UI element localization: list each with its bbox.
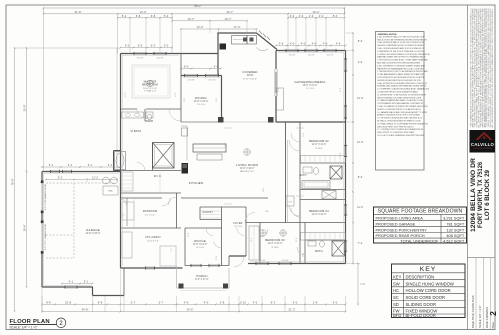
svg-text:2. ALL INTERIOR WALLS TO BE 2X: 2. ALL INTERIOR WALLS TO BE 2X4 STUDS AT… bbox=[377, 41, 424, 44]
svg-text:3050 SH: 3050 SH bbox=[157, 58, 164, 60]
svg-text:BEDROOM: BEDROOM bbox=[142, 83, 158, 87]
svg-text:12’-9: 12’-9 bbox=[357, 96, 363, 100]
svg-text:12’-2: 12’-2 bbox=[92, 176, 98, 180]
svg-text:12’-9: 12’-9 bbox=[357, 140, 363, 144]
svg-text:18’-4": 18’-4" bbox=[313, 10, 320, 14]
svg-text:12’-0" X 12’-0": 12’-0" X 12’-0" bbox=[268, 243, 283, 245]
svg-text:4’-0: 4’-0 bbox=[301, 42, 306, 46]
svg-text:13. ALL PLUMBING FIXTURES PER: 13. ALL PLUMBING FIXTURES PER OWNER SELE… bbox=[377, 105, 428, 108]
svg-text:12’-0: 12’-0 bbox=[251, 238, 253, 242]
svg-text:5’-7: 5’-7 bbox=[159, 300, 164, 304]
svg-text:PROPOSED REAR PORCH: PROPOSED REAR PORCH bbox=[376, 233, 425, 238]
svg-text:SD: SD bbox=[393, 302, 399, 307]
svg-text:BEDROOM #4: BEDROOM #4 bbox=[309, 209, 329, 213]
svg-text:FIELD PRIOR TO CONSTRUCTION ST: FIELD PRIOR TO CONSTRUCTION START bbox=[377, 131, 415, 134]
svg-text:8’-0" X 8’-0" GARAGE DOOR: 8’-0" X 8’-0" GARAGE DOOR bbox=[44, 183, 47, 210]
svg-text:10’ CLG: 10’ CLG bbox=[196, 247, 204, 249]
svg-text:11. DRYER VENT TO BE ROUTED TO: 11. DRYER VENT TO BE ROUTED TO EXTERIOR … bbox=[377, 94, 426, 96]
svg-text:4’-0: 4’-0 bbox=[290, 42, 295, 46]
svg-text:AT WALLS OR AS REQUIRED BY ENE: AT WALLS OR AS REQUIRED BY ENERGY CODE bbox=[377, 120, 421, 123]
svg-text:9’-0: 9’-0 bbox=[171, 248, 173, 251]
svg-text:MUDROOM: MUDROOM bbox=[143, 210, 157, 213]
svg-text:SLIDING DOOR: SLIDING DOOR bbox=[406, 302, 436, 307]
svg-text:31’-8": 31’-8" bbox=[75, 10, 82, 14]
svg-text:LIVING ROOM: LIVING ROOM bbox=[236, 163, 259, 167]
svg-text:2’-8: 2’-8 bbox=[220, 300, 225, 304]
svg-text:10. TEMPERED GLAZING REQUIRED: 10. TEMPERED GLAZING REQUIRED AT ALL HAZ… bbox=[377, 88, 429, 91]
svg-text:KEY: KEY bbox=[420, 266, 437, 273]
svg-text:9’-0: 9’-0 bbox=[123, 213, 125, 216]
svg-text:33’-0: 33’-0 bbox=[45, 198, 47, 202]
svg-text:AND WALL MOUNTED FIXTURES AS R: AND WALL MOUNTED FIXTURES AS REQUIRED bbox=[377, 62, 421, 65]
svg-text:PROPOSED GARAGE: PROPOSED GARAGE bbox=[376, 222, 416, 227]
svg-text:SC: SC bbox=[393, 295, 399, 300]
svg-text:14’-4": 14’-4" bbox=[140, 10, 147, 14]
svg-text:11’ CLG: 11’ CLG bbox=[306, 88, 314, 90]
svg-text:19’-4": 19’-4" bbox=[23, 224, 27, 231]
svg-text:WATERPROOF MEMBRANE PER LOCAL: WATERPROOF MEMBRANE PER LOCAL CODE REQ bbox=[377, 67, 424, 70]
svg-text:KITCHEN: KITCHEN bbox=[189, 181, 204, 185]
svg-text:17’-4": 17’-4" bbox=[234, 25, 241, 29]
svg-text:DATE: 11/05/2021: DATE: 11/05/2021 bbox=[485, 306, 489, 328]
svg-text:CALVILLO: CALVILLO bbox=[471, 142, 495, 147]
svg-text:5’-2: 5’-2 bbox=[122, 14, 127, 18]
svg-text:8’-0" X 17’-6": 8’-0" X 17’-6" bbox=[195, 279, 209, 281]
svg-text:6’-2: 6’-2 bbox=[58, 176, 63, 180]
svg-text:12094 BELLA VINO DR: 12094 BELLA VINO DR bbox=[470, 157, 477, 232]
svg-text:4’-6: 4’-6 bbox=[336, 42, 341, 46]
svg-text:SQUARE FOOTAGE BREAKDOWN: SQUARE FOOTAGE BREAKDOWN bbox=[378, 208, 463, 214]
svg-text:4. VERIFY ALL WINDOW AND DOOR: 4. VERIFY ALL WINDOW AND DOOR ROUGH OPEN… bbox=[377, 53, 430, 56]
svg-text:OTHERWISE ON THE FLOOR PLAN SE: OTHERWISE ON THE FLOOR PLAN SEE CLG NOTE… bbox=[377, 50, 425, 53]
svg-text:408 SQFT: 408 SQFT bbox=[446, 233, 465, 238]
svg-text:17’-0: 17’-0 bbox=[175, 93, 177, 97]
svg-text:UTIL/CRAFT: UTIL/CRAFT bbox=[145, 236, 161, 239]
svg-text:6’-0" X 9’-0": 6’-0" X 9’-0" bbox=[145, 215, 156, 217]
svg-text:24’-6": 24’-6" bbox=[187, 308, 194, 312]
svg-text:5’-2: 5’-2 bbox=[164, 14, 169, 18]
svg-text:10’-0" X 9’-0": 10’-0" X 9’-0" bbox=[147, 241, 159, 243]
svg-text:22’-8: 22’-8 bbox=[87, 178, 89, 182]
svg-text:12’-6" X 12’-0": 12’-6" X 12’-0" bbox=[312, 144, 327, 146]
svg-text:2’-10: 2’-10 bbox=[240, 300, 246, 304]
svg-text:SCALE: 1/4" = 1’-0": SCALE: 1/4" = 1’-0" bbox=[10, 325, 38, 329]
svg-text:4’-9: 4’-9 bbox=[309, 14, 314, 18]
svg-text:HC: HC bbox=[393, 288, 399, 293]
svg-text:9. ALL EXTERIOR DOORS AND WIND: 9. ALL EXTERIOR DOORS AND WINDOWS TO BE … bbox=[377, 82, 428, 85]
svg-text:W.I.C.: W.I.C. bbox=[154, 174, 162, 178]
svg-text:5’-1: 5’-1 bbox=[49, 163, 54, 167]
svg-text:5’-1: 5’-1 bbox=[88, 163, 93, 167]
svg-text:18’-0: 18’-0 bbox=[225, 143, 227, 147]
svg-text:3’-6: 3’-6 bbox=[279, 42, 284, 46]
svg-text:781 SQFT: 781 SQFT bbox=[446, 222, 465, 227]
svg-text:LOT 6 BLOCK 29: LOT 6 BLOCK 29 bbox=[484, 169, 491, 220]
svg-text:9’ TRAY CLG: 9’ TRAY CLG bbox=[144, 90, 156, 93]
svg-text:34’-8": 34’-8" bbox=[82, 308, 89, 312]
svg-text:11’-0: 11’-0 bbox=[357, 205, 363, 209]
svg-text:6’-0: 6’-0 bbox=[184, 65, 189, 69]
svg-text:12. WATER HEATER AND HVAC LOCA: 12. WATER HEATER AND HVAC LOCATIONS TO B… bbox=[377, 99, 423, 102]
svg-text:5. PROVIDE BLOCKING AT ALL TOW: 5. PROVIDE BLOCKING AT ALL TOWEL BARS GR… bbox=[377, 59, 428, 62]
svg-text:13’-6: 13’-6 bbox=[216, 98, 218, 102]
svg-text:21’-6: 21’-6 bbox=[340, 88, 342, 92]
svg-text:3,291 SQFT: 3,291 SQFT bbox=[443, 216, 465, 221]
svg-text:17. CONTRACTOR TO VERIFY ALL D: 17. CONTRACTOR TO VERIFY ALL DIMENSIONS … bbox=[377, 128, 423, 131]
svg-text:PROPOSED LIVING AREA: PROPOSED LIVING AREA bbox=[376, 216, 424, 221]
svg-text:6040 SW: 6040 SW bbox=[209, 80, 216, 82]
svg-text:VERIFY LOCATIONS PRIOR TO SLAB: VERIFY LOCATIONS PRIOR TO SLAB ROUGH IN bbox=[377, 108, 421, 111]
svg-text:3’-0: 3’-0 bbox=[164, 44, 169, 48]
svg-text:3. ALL CEILING HEIGHTS ARE 10: 3. ALL CEILING HEIGHTS ARE 10 FT-0 IN UN… bbox=[377, 47, 424, 50]
svg-text:8’-0" X 8’-0" GARAGE DOOR: 8’-0" X 8’-0" GARAGE DOOR bbox=[44, 223, 47, 250]
svg-text:21’-6: 21’-6 bbox=[278, 88, 280, 92]
svg-text:M.BATH: M.BATH bbox=[131, 129, 142, 133]
svg-text:AREAS TO RECEIVE 5/8 IN TYPE X: AREAS TO RECEIVE 5/8 IN TYPE X GYP BOARD bbox=[377, 114, 420, 117]
svg-text:7’-2: 7’-2 bbox=[358, 241, 363, 245]
svg-text:PAGE TITLE: FLOOR PLAN: PAGE TITLE: FLOOR PLAN bbox=[471, 295, 475, 328]
svg-text:76’-9": 76’-9" bbox=[11, 178, 15, 185]
svg-text:8’-0: 8’-0 bbox=[333, 14, 338, 18]
svg-text:4’-9: 4’-9 bbox=[358, 60, 363, 64]
svg-text:12’-0" X 12’-0": 12’-0" X 12’-0" bbox=[312, 214, 327, 216]
svg-text:2: 2 bbox=[488, 311, 498, 316]
svg-text:7. SMOKE DETECTORS TO BE INSTA: 7. SMOKE DETECTORS TO BE INSTALLED PER I… bbox=[377, 70, 428, 73]
svg-text:SINGLE HUNG WINDOW: SINGLE HUNG WINDOW bbox=[406, 281, 454, 286]
svg-text:4’-0: 4’-0 bbox=[323, 42, 328, 46]
svg-text:18’-0: 18’-0 bbox=[263, 188, 265, 192]
svg-text:LOCATIONS PER IRC R308.4 AS AP: LOCATIONS PER IRC R308.4 AS APPLICABLE bbox=[377, 91, 418, 94]
svg-text:6’-0: 6’-0 bbox=[293, 300, 298, 304]
svg-text:1. ALL EXTERIOR WALLS TO BE 2X: 1. ALL EXTERIOR WALLS TO BE 2X4 STUDS AT… bbox=[377, 35, 425, 38]
svg-text:12’-6: 12’-6 bbox=[216, 256, 218, 260]
svg-text:4’-0: 4’-0 bbox=[319, 14, 324, 18]
svg-text:6’-8: 6’-8 bbox=[151, 14, 156, 18]
svg-text:FLOOR PLAN: FLOOR PLAN bbox=[10, 319, 50, 325]
svg-text:PANTRY: PANTRY bbox=[203, 211, 214, 214]
svg-text:10’ CLG: 10’ CLG bbox=[197, 104, 205, 106]
svg-text:12’-0: 12’-0 bbox=[340, 153, 342, 157]
svg-text:6. ALL SHOWERS TO RECEIVE CEME: 6. ALL SHOWERS TO RECEIVE CEMENT BOARD A… bbox=[377, 64, 425, 67]
svg-text:6’-8: 6’-8 bbox=[136, 14, 141, 18]
svg-text:8. PROVIDE ATTIC ACCESS MIN 22: 8. PROVIDE ATTIC ACCESS MIN 22X30 IN LOC… bbox=[377, 76, 425, 79]
svg-text:14. GARAGE WALLS AND CEILING A: 14. GARAGE WALLS AND CEILING ADJACENT TO… bbox=[377, 111, 427, 114]
svg-text:21’-2": 21’-2" bbox=[289, 308, 296, 312]
svg-text:MIN 6 IN IN FIRST 10 FT PER IR: MIN 6 IN IN FIRST 10 FT PER IRC R401.3 bbox=[377, 126, 413, 128]
svg-text:4,612 SQFT: 4,612 SQFT bbox=[443, 238, 465, 243]
svg-text:BATH: BATH bbox=[315, 249, 323, 253]
svg-text:6’-0: 6’-0 bbox=[333, 300, 338, 304]
svg-text:12’-2": 12’-2" bbox=[197, 25, 204, 29]
svg-text:LOCAL AMENDMENTS HARD WIRED WI: LOCAL AMENDMENTS HARD WIRED WITH BATTERY bbox=[377, 73, 425, 76]
svg-text:26’-7": 26’-7" bbox=[227, 10, 234, 14]
svg-text:12’-0: 12’-0 bbox=[303, 133, 305, 137]
svg-text:HVAC: HVAC bbox=[108, 190, 114, 193]
svg-text:10’-7": 10’-7" bbox=[225, 17, 232, 21]
svg-text:BATH: BATH bbox=[300, 174, 307, 177]
svg-text:2’-8: 2’-8 bbox=[313, 300, 318, 304]
svg-text:OFFICE: OFFICE bbox=[194, 239, 206, 243]
svg-text:3060 SH: 3060 SH bbox=[327, 55, 334, 57]
svg-text:PATIO: PATIO bbox=[247, 74, 254, 77]
svg-text:17’-0" X 12’-0": 17’-0" X 12’-0" bbox=[243, 79, 257, 81]
svg-text:17’-0: 17’-0 bbox=[125, 93, 127, 97]
svg-text:COVERED: COVERED bbox=[242, 70, 257, 74]
svg-text:5’-1: 5’-1 bbox=[68, 163, 73, 167]
svg-text:ALL WINDOW AND DOOR SIZES TO B: ALL WINDOW AND DOOR SIZES TO BE VERIFIED… bbox=[491, 8, 494, 127]
svg-text:4’-0: 4’-0 bbox=[253, 300, 258, 304]
svg-text:SMOOTH METAL DUCT MAX LENGTH P: SMOOTH METAL DUCT MAX LENGTH PER CODE bbox=[377, 96, 422, 99]
svg-text:PORCH: PORCH bbox=[196, 274, 207, 278]
svg-text:10’-7": 10’-7" bbox=[188, 17, 195, 21]
svg-text:33’-9": 33’-9" bbox=[23, 104, 27, 111]
svg-text:SOLID CORE DOOR: SOLID CORE DOOR bbox=[406, 295, 446, 300]
svg-text:GATHERING/MEDIA: GATHERING/MEDIA bbox=[295, 80, 326, 84]
svg-text:5’-1: 5’-1 bbox=[108, 163, 113, 167]
svg-text:15. PROVIDE R-38 INSULATION AT: 15. PROVIDE R-38 INSULATION AT CEILINGS … bbox=[377, 117, 422, 120]
svg-text:6’-0: 6’-0 bbox=[138, 44, 143, 48]
svg-text:KEY: KEY bbox=[393, 274, 402, 279]
svg-text:TOTAL UNDERROOF: TOTAL UNDERROOF bbox=[400, 238, 439, 243]
svg-text:7’-2: 7’-2 bbox=[360, 282, 365, 286]
svg-text:BI-FOLD DOOR: BI-FOLD DOOR bbox=[406, 313, 436, 318]
svg-text:VAULTED CLG: VAULTED CLG bbox=[240, 170, 255, 173]
svg-text:12’-0: 12’-0 bbox=[296, 238, 298, 242]
svg-text:DESCRIPTION: DESCRIPTION bbox=[406, 274, 435, 279]
svg-text:FORT WORTH, TX 75126: FORT WORTH, TX 75126 bbox=[477, 161, 484, 228]
svg-text:6’-0: 6’-0 bbox=[214, 65, 219, 69]
svg-text:FOYER: FOYER bbox=[233, 222, 242, 225]
svg-text:88’-2": 88’-2" bbox=[195, 4, 202, 8]
svg-text:5’-7: 5’-7 bbox=[131, 300, 136, 304]
svg-text:CUSTOM HOMES: CUSTOM HOMES bbox=[473, 148, 492, 150]
svg-text:GARAGE: GARAGE bbox=[86, 228, 100, 232]
svg-text:8’-8: 8’-8 bbox=[46, 300, 51, 304]
svg-text:BEDROOM #3: BEDROOM #3 bbox=[265, 238, 285, 242]
svg-text:9’ CLG: 9’ CLG bbox=[272, 247, 279, 249]
svg-text:6040 SW: 6040 SW bbox=[188, 80, 195, 82]
svg-text:8’-2: 8’-2 bbox=[271, 300, 276, 304]
svg-text:4’-1: 4’-1 bbox=[69, 280, 74, 284]
svg-text:4’-9: 4’-9 bbox=[299, 14, 304, 18]
svg-text:3050 SH: 3050 SH bbox=[137, 58, 144, 60]
svg-text:COORDINATED WITH MECHANICAL CO: COORDINATED WITH MECHANICAL CONTRACTOR bbox=[377, 102, 423, 105]
svg-text:15’-8: 15’-8 bbox=[65, 300, 71, 304]
svg-text:DINING: DINING bbox=[195, 96, 207, 100]
svg-text:3’-0: 3’-0 bbox=[125, 44, 130, 48]
svg-text:3060 SH: 3060 SH bbox=[289, 55, 296, 57]
svg-text:PROPOSED PORCH/ENTRY: PROPOSED PORCH/ENTRY bbox=[376, 227, 428, 232]
svg-text:UNLESS OTHERWISE NOTED ON PLAN: UNLESS OTHERWISE NOTED ON PLAN OR DETAIL… bbox=[377, 44, 425, 47]
svg-text:8’-8: 8’-8 bbox=[98, 300, 103, 304]
svg-text:FLASHED AND SEALED PER MANUFAC: FLASHED AND SEALED PER MANUFACTURER SPEC… bbox=[377, 85, 426, 88]
svg-text:MANUFACTURER SPECS PRIOR TO FR: MANUFACTURER SPECS PRIOR TO FRAMING WALL… bbox=[377, 56, 426, 59]
svg-text:5’-1: 5’-1 bbox=[84, 280, 89, 284]
svg-text:SW: SW bbox=[393, 281, 400, 286]
svg-text:12’-6: 12’-6 bbox=[188, 233, 190, 237]
svg-text:SCALE: 1/4" = 1’-0": SCALE: 1/4" = 1’-0" bbox=[478, 305, 482, 328]
svg-text:SHOWN OR AS DIRECTED BY BUILDE: SHOWN OR AS DIRECTED BY BUILDER ON SITE bbox=[377, 79, 421, 82]
svg-text:LIN.: LIN. bbox=[265, 211, 269, 213]
svg-text:3’-2: 3’-2 bbox=[290, 14, 295, 18]
svg-text:8’-9: 8’-9 bbox=[358, 39, 363, 43]
svg-text:22’-8" X 33’-0": 22’-8" X 33’-0" bbox=[86, 233, 101, 235]
svg-text:6’-0: 6’-0 bbox=[151, 44, 156, 48]
svg-text:GENERAL NOTES:: GENERAL NOTES: bbox=[378, 33, 398, 36]
svg-text:132 SQFT: 132 SQFT bbox=[446, 227, 465, 232]
svg-text:4’-0: 4’-0 bbox=[204, 300, 209, 304]
svg-text:4’-0: 4’-0 bbox=[184, 300, 189, 304]
svg-text:PAGE: PAGE bbox=[492, 322, 495, 329]
svg-text:BRICK OR STONE VENEER AS SHOWN: BRICK OR STONE VENEER AS SHOWN ON ELEVAT… bbox=[377, 38, 427, 41]
svg-text:18. DO NOT SCALE DRAWINGS USE: 18. DO NOT SCALE DRAWINGS USE WRITTEN DI… bbox=[377, 134, 425, 137]
svg-text:HOLLOW CORE DOOR: HOLLOW CORE DOOR bbox=[406, 288, 451, 293]
svg-text:16. FINAL GRADE TO SLOPE AWAY: 16. FINAL GRADE TO SLOPE AWAY FROM FOUND… bbox=[377, 122, 428, 125]
svg-text:13’-6: 13’-6 bbox=[184, 98, 186, 102]
svg-text:BFD: BFD bbox=[393, 313, 401, 318]
svg-text:12’ CLG: 12’ CLG bbox=[234, 226, 242, 228]
svg-text:9’ CLG: 9’ CLG bbox=[316, 148, 323, 150]
svg-text:BEDROOM #2: BEDROOM #2 bbox=[309, 139, 329, 143]
svg-text:3060 SH: 3060 SH bbox=[308, 55, 315, 57]
svg-text:8’-9: 8’-9 bbox=[358, 175, 363, 179]
